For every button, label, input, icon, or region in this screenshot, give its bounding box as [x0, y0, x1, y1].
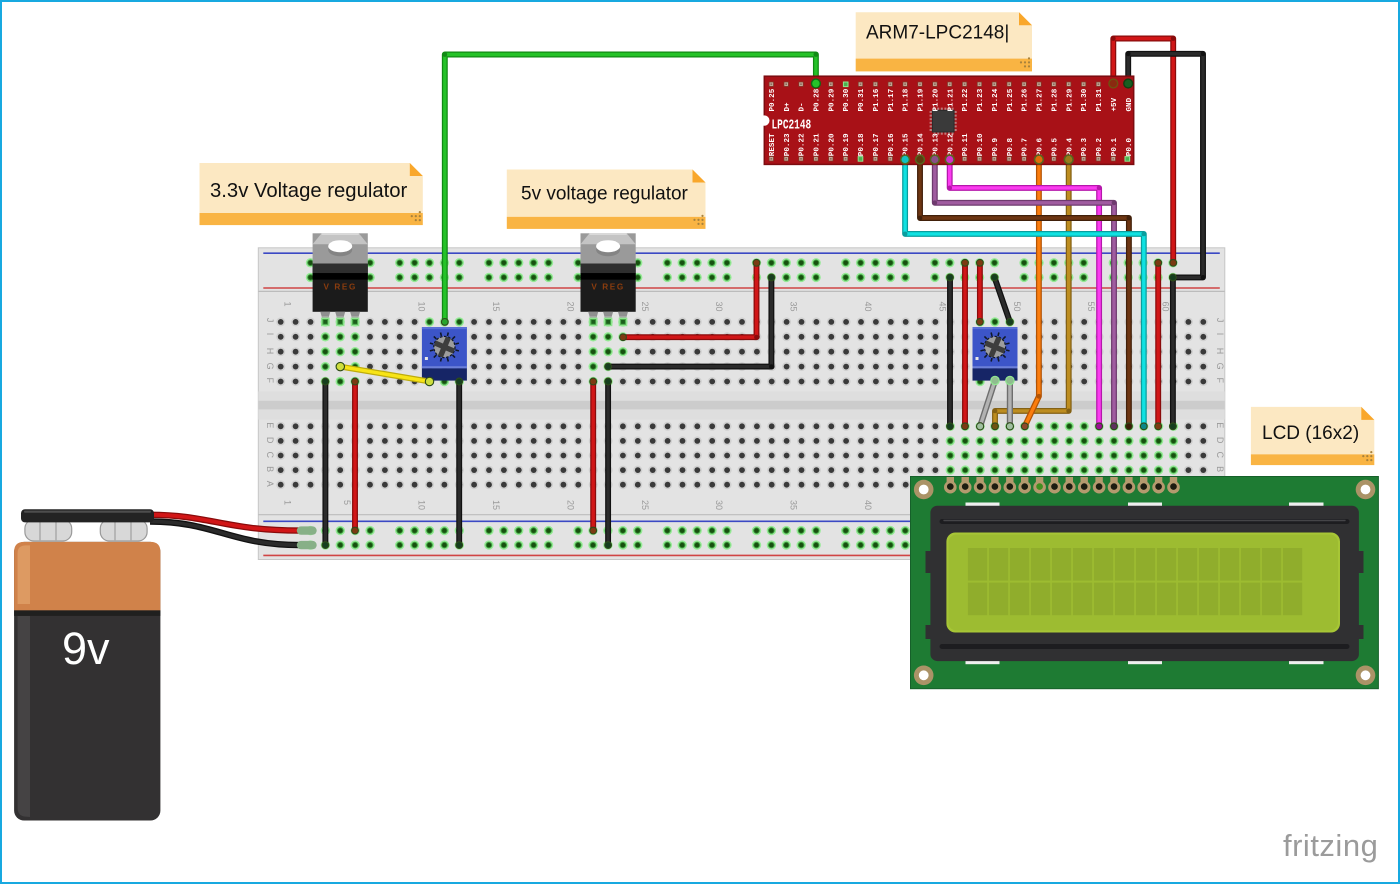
svg-text:I: I [1215, 333, 1225, 336]
wire 5v col23 to rail [605, 378, 612, 548]
svg-text:40: 40 [863, 500, 873, 510]
svg-text:P1.23: P1.23 [977, 88, 985, 111]
svg-text:15: 15 [491, 302, 501, 312]
wire pot RV2 GND [991, 274, 1013, 325]
breadboard labels [265, 302, 1225, 511]
svg-text:A: A [265, 481, 275, 487]
svg-text:E: E [1215, 422, 1225, 428]
svg-text:55: 55 [1086, 302, 1096, 312]
svg-text:P0.21: P0.21 [814, 133, 822, 156]
svg-text:C: C [1215, 452, 1225, 459]
svg-text:D+: D+ [784, 102, 792, 112]
svg-text:P1.22: P1.22 [962, 88, 970, 111]
wire P0.6 to LCD D4 [1021, 157, 1042, 430]
svg-text:P0.23: P0.23 [784, 133, 792, 156]
breadboard hole grid [276, 317, 1208, 489]
breadboard power rails [306, 258, 1178, 550]
svg-text:J: J [1215, 318, 1225, 323]
wire GND to top rail [1125, 51, 1206, 280]
svg-text:V REG: V REG [323, 283, 356, 292]
svg-text:P1.31: P1.31 [1096, 88, 1104, 111]
svg-text:P0.10: P0.10 [977, 133, 985, 156]
svg-text:9v: 9v [62, 623, 110, 674]
svg-text:P0.11: P0.11 [962, 133, 970, 156]
svg-text:20: 20 [565, 500, 575, 510]
voltage regulator U3 5v (TO-220) [581, 233, 636, 325]
svg-text:P0.16: P0.16 [888, 133, 896, 156]
potentiometer RV2 legs [977, 376, 1015, 430]
svg-text:P0.9: P0.9 [992, 138, 1000, 157]
label note: 5v voltage regulator [507, 170, 706, 229]
potentiometer RV2 [973, 327, 1018, 381]
wire 5v col22 to rail [590, 378, 597, 534]
svg-text:P0.30: P0.30 [843, 88, 851, 111]
wire P0.4 to LCD D5 [992, 157, 1073, 430]
svg-text:B: B [265, 466, 275, 472]
label note: 3.3v Voltage regulator [200, 163, 423, 225]
svg-text:5v voltage regulator: 5v voltage regulator [521, 184, 689, 205]
fritzing watermark [1283, 828, 1378, 863]
svg-text:30: 30 [714, 500, 724, 510]
svg-text:B: B [1215, 466, 1225, 472]
potentiometer RV1 [422, 327, 467, 381]
wire GND col4 to rail [322, 378, 329, 548]
svg-text:1: 1 [283, 500, 293, 505]
svg-text:P0.13: P0.13 [933, 133, 941, 156]
svg-text:P1.21: P1.21 [947, 88, 955, 111]
wire P0.12 to LCD D7 [946, 157, 1102, 430]
svg-text:P1.30: P1.30 [1081, 88, 1089, 111]
svg-text:P0.20: P0.20 [828, 133, 836, 156]
svg-text:35: 35 [789, 302, 799, 312]
svg-text:P1.27: P1.27 [1037, 88, 1045, 111]
svg-text:J: J [265, 318, 275, 323]
svg-text:P1.25: P1.25 [1007, 88, 1015, 111]
svg-text:GND: GND [1126, 97, 1134, 111]
svg-text:P0.29: P0.29 [828, 88, 836, 111]
wire 5v reg gnd to top rail [605, 274, 775, 370]
svg-text:LCD (16x2): LCD (16x2) [1262, 423, 1359, 444]
svg-text:H: H [265, 348, 275, 355]
wire pot RV1 to GND rail [456, 378, 463, 548]
svg-text:P0.5: P0.5 [1051, 138, 1059, 157]
label note: LCD (16x2) [1251, 407, 1374, 465]
svg-text:P0.18: P0.18 [858, 133, 866, 156]
svg-text:P1.20: P1.20 [933, 88, 941, 111]
wire P0.13 to LCD D6 [931, 157, 1117, 430]
wire LCD pin1 GND [947, 274, 954, 430]
svg-text:ARM7-LPC2148|: ARM7-LPC2148| [866, 23, 1009, 44]
svg-text:10: 10 [417, 302, 427, 312]
svg-text:5: 5 [342, 500, 352, 505]
svg-text:45: 45 [937, 302, 947, 312]
ARM7 LPC2148 board U1 [759, 76, 1134, 164]
svg-text:P1.29: P1.29 [1066, 88, 1074, 111]
wire +5V to top rail [1110, 36, 1177, 266]
svg-text:50: 50 [1012, 302, 1022, 312]
svg-text:P0.1: P0.1 [1111, 138, 1119, 157]
svg-text:P1.19: P1.19 [918, 88, 926, 111]
wire connection caps on LPC pins [812, 79, 1133, 164]
wire 3.3v out to pot RV1 [336, 362, 434, 385]
svg-text:D: D [1215, 437, 1225, 444]
9v battery BT1 [14, 509, 312, 820]
svg-text:40: 40 [863, 302, 873, 312]
svg-text:P0.0: P0.0 [1126, 138, 1134, 157]
svg-text:15: 15 [491, 500, 501, 510]
voltage regulator U2 3.3v (TO-220) [313, 233, 368, 325]
svg-text:1: 1 [283, 302, 293, 307]
svg-text:P0.2: P0.2 [1096, 138, 1104, 157]
breadboard [258, 248, 1225, 560]
svg-text:P0.12: P0.12 [947, 133, 955, 156]
svg-text:30: 30 [714, 302, 724, 312]
svg-text:3.3v Voltage regulator: 3.3v Voltage regulator [210, 180, 408, 202]
svg-text:P0.31: P0.31 [858, 88, 866, 111]
svg-text:P0.22: P0.22 [799, 133, 807, 156]
svg-text:P0.28: P0.28 [814, 88, 822, 111]
svg-text:E: E [265, 422, 275, 428]
LCD 16x2 module [911, 477, 1379, 689]
svg-text:P0.6: P0.6 [1037, 138, 1045, 157]
svg-text:D-: D- [799, 102, 807, 111]
wire 5v reg out to top rail [620, 259, 760, 340]
svg-text:P1.24: P1.24 [992, 88, 1000, 111]
svg-text:P0.14: P0.14 [918, 133, 926, 156]
svg-text:G: G [1215, 363, 1225, 370]
svg-text:60: 60 [1161, 302, 1171, 312]
svg-text:fritzing: fritzing [1283, 828, 1378, 863]
svg-text:P1.18: P1.18 [903, 88, 911, 111]
svg-text:LPC2148: LPC2148 [772, 118, 812, 133]
svg-text:I: I [265, 333, 275, 336]
svg-text:D: D [265, 437, 275, 444]
svg-text:RESET: RESET [769, 133, 777, 156]
svg-text:V REG: V REG [591, 283, 624, 292]
svg-text:P0.17: P0.17 [873, 133, 881, 156]
svg-text:H: H [1215, 348, 1225, 355]
wire LCD pin16 GND [1170, 274, 1177, 430]
svg-text:F: F [265, 378, 275, 384]
svg-text:P1.26: P1.26 [1022, 88, 1030, 111]
svg-text:20: 20 [565, 302, 575, 312]
svg-text:P0.25: P0.25 [769, 88, 777, 111]
svg-text:P0.15: P0.15 [903, 133, 911, 156]
svg-text:25: 25 [640, 302, 650, 312]
wire P0.14 to LCD EN [917, 157, 1133, 430]
wire LCD pin2 +5V [962, 259, 969, 429]
svg-text:10: 10 [417, 500, 427, 510]
wire P0.28 to pot RV1 wiper [441, 52, 819, 325]
svg-text:P1.16: P1.16 [873, 88, 881, 111]
svg-text:P0.3: P0.3 [1081, 138, 1089, 157]
svg-text:P0.19: P0.19 [843, 133, 851, 156]
label note: ARM7-LPC2148 [856, 12, 1032, 71]
svg-text:P0.4: P0.4 [1066, 138, 1074, 157]
svg-text:P1.17: P1.17 [888, 88, 896, 111]
svg-text:P0.7: P0.7 [1022, 138, 1030, 157]
wire P0.15 to LCD RS [902, 157, 1148, 430]
wire LCD pin15 +5V [1155, 259, 1162, 429]
svg-text:G: G [265, 363, 275, 370]
wire 3.3v col6 to rail [352, 378, 359, 534]
svg-text:P1.28: P1.28 [1051, 88, 1059, 111]
svg-text:35: 35 [789, 500, 799, 510]
svg-text:25: 25 [640, 500, 650, 510]
svg-text:P0.8: P0.8 [1007, 138, 1015, 157]
svg-text:F: F [1215, 378, 1225, 384]
svg-text:C: C [265, 452, 275, 459]
svg-text:+5V: +5V [1111, 97, 1119, 111]
wire pot RV2 +5V [977, 259, 984, 325]
